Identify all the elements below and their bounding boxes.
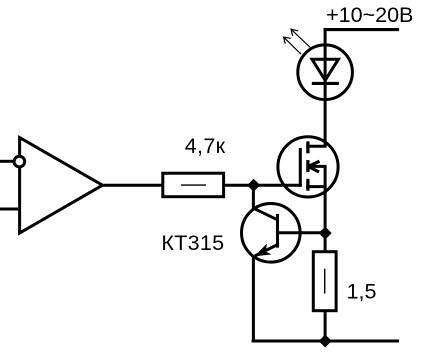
comparator U1 triangle <box>20 138 103 233</box>
wire rail corner down through LED to drain <box>324 28 327 146</box>
MOSFET gate bar <box>299 148 302 187</box>
resistor R1 inner dash <box>181 184 206 186</box>
transistor VT1 base bar <box>276 214 279 248</box>
transistor VT1 emitter line <box>255 245 278 256</box>
wire collector drop <box>252 185 255 210</box>
LED HL1 body circle <box>298 45 353 100</box>
resistor R1 body <box>163 173 224 197</box>
node junction at base <box>319 227 332 240</box>
svg-text:4,7к: 4,7к <box>185 134 226 158</box>
wire resistor R2 to bottom rail <box>324 310 327 343</box>
MOSFET drain line <box>306 145 326 148</box>
transistor VT1 KT315 body circle <box>241 204 300 263</box>
wire non-inverting input <box>0 208 18 211</box>
wire supply rail top <box>324 28 400 31</box>
LED emission arrow 2 <box>284 37 301 54</box>
MOSFET channel segment middle <box>306 160 309 172</box>
MOSFET channel segment bottom <box>306 179 309 191</box>
MOSFET source right vertical <box>324 166 327 186</box>
MOSFET body line with arrow <box>309 165 327 168</box>
MOSFET VT2 body circle <box>278 137 338 197</box>
inverting input bubble <box>14 156 25 167</box>
LED emission arrow 1 <box>291 29 310 47</box>
MOSFET body arrowhead barb upper <box>308 161 319 166</box>
transistor VT1 collector line <box>253 208 277 220</box>
wire emitter to bottom rail <box>252 256 255 343</box>
LED HL1 cathode bar <box>312 82 339 85</box>
wire inverting input <box>0 160 13 163</box>
wire bottom rail <box>252 339 400 342</box>
MOSFET channel segment top <box>306 141 309 153</box>
wire source to resistor R2 <box>324 187 327 253</box>
svg-text:+10~20В: +10~20В <box>326 3 413 27</box>
LED HL1 triangle <box>312 59 338 80</box>
resistor R2 inner dash <box>324 269 326 294</box>
node junction at bottom rail <box>319 335 332 348</box>
resistor R2 body <box>313 252 336 311</box>
wire comparator output to gate <box>103 184 302 187</box>
MOSFET body arrowhead barb lower <box>308 166 319 172</box>
node junction at gate <box>247 179 260 192</box>
transistor VT1 base lead <box>278 231 326 234</box>
MOSFET source line <box>306 185 326 188</box>
svg-text:КТ315: КТ315 <box>161 231 224 255</box>
transistor VT1 emitter arrowhead <box>254 244 271 257</box>
svg-text:1,5: 1,5 <box>347 280 377 304</box>
